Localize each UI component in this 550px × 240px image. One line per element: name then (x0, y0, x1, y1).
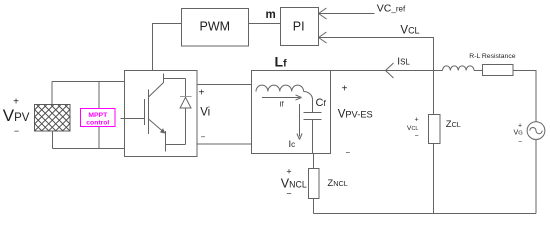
wire diode branch vertical (185, 79, 187, 145)
wire VG to bottom bus (535, 140, 537, 214)
wire PV panel bottom lead (52, 131, 54, 149)
svg-text:+: + (414, 117, 418, 124)
inductor R-L coil (443, 66, 475, 71)
wire capacitor to box bottom (312, 120, 314, 154)
wire VCL feedback into PI with arrowhead (319, 32, 434, 71)
wire converter to Lf bottom (197, 143, 252, 145)
svg-text:VCL: VCL (400, 25, 419, 37)
svg-text:VCL: VCL (407, 125, 418, 132)
wire resistor to VG (513, 71, 536, 122)
impedance ZCL box (429, 115, 441, 144)
svg-text:Vi: Vi (200, 106, 210, 118)
svg-text:−: − (414, 133, 418, 140)
svg-text:ISL: ISL (397, 57, 410, 68)
svg-text:MPPT: MPPT (88, 112, 108, 119)
diode D1 triangle (180, 97, 191, 108)
svg-text:PI: PI (293, 20, 305, 34)
svg-text:+: + (286, 167, 291, 177)
svg-text:−: − (345, 148, 350, 157)
wire emitter to bottom node (166, 131, 186, 152)
current arrow Ic (297, 104, 302, 140)
svg-text:−: − (201, 133, 206, 142)
wire coil to resistor (474, 70, 483, 72)
svg-text:m: m (266, 9, 276, 21)
wire coil to capacitor (312, 100, 314, 113)
svg-text:If: If (280, 99, 284, 108)
svg-text:Cf: Cf (316, 97, 327, 109)
svg-text:−: − (286, 189, 291, 199)
svg-text:control: control (86, 120, 109, 127)
wire Lf box to ZNCL (313, 154, 315, 169)
svg-text:R-L Resistance: R-L Resistance (469, 53, 515, 60)
wire collector node to diode branch (164, 78, 186, 80)
transistor Q1 collector lead (149, 74, 164, 98)
inductor Lf coil (256, 85, 313, 99)
svg-text:ZNCL: ZNCL (327, 178, 347, 189)
svg-text:VNCL: VNCL (281, 177, 307, 191)
wire PWM to PI (m) (249, 23, 281, 25)
svg-text:VC_ref: VC_ref (377, 3, 406, 15)
svg-text:+: + (199, 88, 205, 99)
transistor Q1 body bar (148, 90, 150, 135)
wire PV top bus (52, 81, 125, 83)
Lf filter block box (252, 71, 331, 154)
current arrow If (262, 95, 302, 100)
svg-text:ZCL: ZCL (446, 119, 461, 130)
wire ZCL branch vertical (433, 71, 435, 214)
diode D1 cathode bar (180, 96, 192, 98)
wire VC_ref into PI with arrowhead (319, 8, 375, 19)
wire ISL output with arrowhead (331, 63, 443, 78)
wire PV bottom bus (53, 148, 125, 150)
transistor Q1 emitter lead with arrow (149, 119, 166, 134)
PI block (281, 8, 319, 46)
svg-text:−: − (518, 139, 522, 146)
wire PV panel top lead (51, 82, 53, 106)
impedance ZNCL box (309, 169, 320, 199)
wire bottom bus (314, 213, 537, 215)
wire MPPT sense vertical (98, 82, 100, 149)
transistor Q1 gate bar (144, 99, 146, 125)
wire converter to Lf top (197, 84, 252, 86)
converter block box (125, 71, 198, 157)
svg-text:VPV-ES: VPV-ES (338, 109, 373, 121)
svg-text:+: + (342, 84, 348, 95)
capacitor Cf plates (304, 113, 322, 120)
PV panel hatched box (35, 105, 71, 132)
svg-text:−: − (14, 126, 19, 136)
source VG circle (527, 122, 545, 140)
PWM block (182, 9, 249, 47)
transistor Q1 (IGBT) gate lead (121, 118, 145, 120)
wire PWM to converter gate (153, 24, 182, 71)
resistor R-L box (483, 65, 514, 76)
svg-text:+: + (518, 123, 522, 130)
svg-text:PWM: PWM (200, 20, 231, 34)
wire ZNCL to bottom bus (313, 199, 315, 214)
svg-text:Ic: Ic (289, 139, 296, 150)
MPPT control block (81, 109, 116, 127)
